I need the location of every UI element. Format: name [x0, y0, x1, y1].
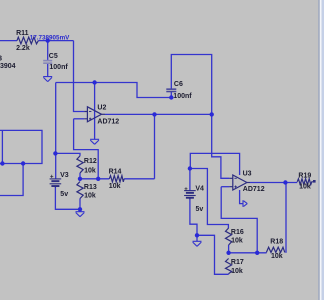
- svg-text:10k: 10k: [299, 184, 311, 191]
- svg-text:10k: 10k: [84, 167, 96, 174]
- svg-text:R18: R18: [270, 238, 283, 245]
- svg-text:17.738905mV: 17.738905mV: [30, 34, 70, 41]
- svg-text:10k: 10k: [109, 183, 121, 190]
- svg-text:Q3: Q3: [0, 56, 2, 63]
- svg-text:AD712: AD712: [243, 186, 265, 193]
- svg-text:2N3904: 2N3904: [0, 63, 16, 70]
- svg-text:100nf: 100nf: [173, 93, 192, 100]
- svg-text:10k: 10k: [231, 238, 243, 245]
- svg-text:C6: C6: [174, 81, 183, 88]
- svg-text:5v: 5v: [60, 191, 68, 198]
- svg-text:5v: 5v: [196, 206, 204, 213]
- svg-text:U3: U3: [243, 171, 252, 178]
- svg-text:R12: R12: [84, 158, 97, 165]
- svg-text:V3: V3: [60, 172, 69, 179]
- svg-text:R13: R13: [84, 184, 97, 191]
- svg-text:AD712: AD712: [97, 119, 119, 126]
- svg-text:C5: C5: [49, 53, 58, 60]
- svg-text:+: +: [50, 174, 54, 180]
- svg-text:10k: 10k: [271, 253, 283, 260]
- svg-text:R17: R17: [231, 259, 244, 266]
- svg-text:U2: U2: [97, 104, 106, 111]
- svg-text:10k: 10k: [231, 268, 243, 275]
- svg-text:R19: R19: [298, 173, 311, 180]
- svg-text:100nf: 100nf: [49, 64, 68, 71]
- svg-text:R11: R11: [16, 30, 29, 37]
- svg-text:R16: R16: [231, 229, 244, 236]
- svg-text:2.2k: 2.2k: [16, 45, 30, 52]
- svg-text:R14: R14: [109, 168, 122, 175]
- svg-text:V4: V4: [195, 185, 204, 192]
- svg-text:10k: 10k: [84, 193, 96, 200]
- svg-text:+: +: [184, 187, 188, 193]
